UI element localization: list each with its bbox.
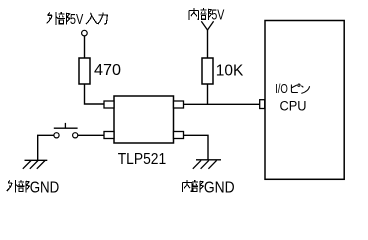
svg-text:5V: 5V <box>70 12 84 28</box>
ground (external) <box>23 160 48 169</box>
svg-text:5V: 5V <box>211 7 224 23</box>
pin 3 <box>174 132 184 139</box>
terminal circle (external 5V input) <box>82 30 88 36</box>
svg-text:I/O: I/O <box>275 82 288 96</box>
CPU box U2 <box>265 21 344 180</box>
wire <box>207 30 209 59</box>
svg-text:CPU: CPU <box>280 99 307 114</box>
svg-text:GND: GND <box>30 180 60 197</box>
label 外部5V入力 <box>47 12 108 28</box>
wire <box>38 135 54 160</box>
label 内部GND <box>182 180 234 197</box>
wire <box>84 36 86 58</box>
resistor R1 <box>79 58 90 84</box>
svg-text:470: 470 <box>94 62 121 79</box>
power symbol (internal 5V) <box>201 21 213 30</box>
wire <box>207 84 209 104</box>
label 外部GND <box>7 180 60 197</box>
resistor R2 <box>202 58 213 84</box>
optocoupler U1 TLP521 <box>114 96 174 143</box>
ground (internal) <box>193 160 221 169</box>
label 内部5V <box>189 7 225 23</box>
pin 2 <box>104 132 114 139</box>
wire <box>184 103 260 105</box>
label I/Oピン <box>275 82 310 96</box>
pin I/O <box>260 100 265 109</box>
wire <box>85 84 105 104</box>
svg-text:TLP521: TLP521 <box>118 151 167 168</box>
pin 1 <box>104 101 114 108</box>
pin 4 <box>174 101 184 108</box>
svg-text:10K: 10K <box>216 62 244 79</box>
pushbutton switch SW1 <box>54 123 78 138</box>
svg-text:GND: GND <box>204 180 235 197</box>
wire <box>184 135 209 160</box>
wire <box>78 134 104 136</box>
